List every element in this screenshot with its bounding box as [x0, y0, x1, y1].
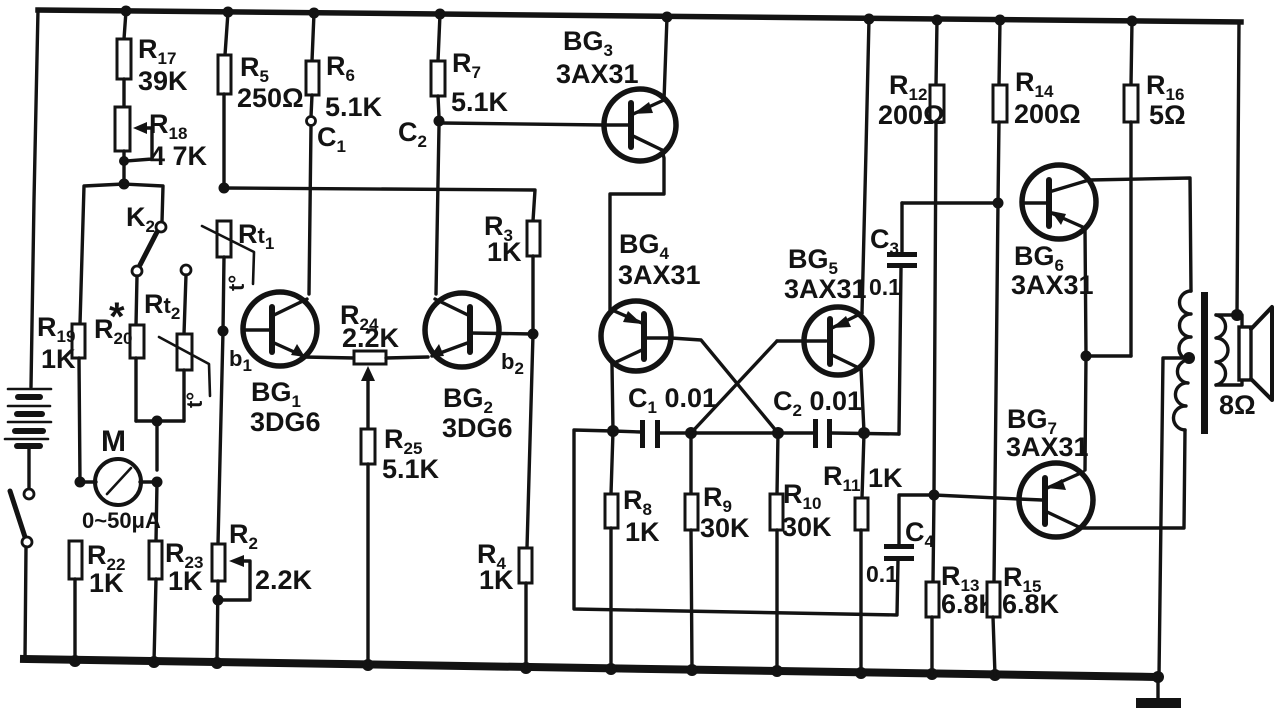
transistor BG3 3AX31: [556, 26, 676, 161]
wire BG3 emitter to top rail: [664, 17, 667, 100]
wire bias row to R3: [224, 188, 535, 221]
wire secondary bottom to speaker: [1216, 380, 1242, 385]
speaker 8 ohm: [1219, 307, 1272, 420]
wire branch to R19: [80, 184, 124, 324]
resistor R5: [218, 12, 304, 188]
svg-text:BG2: BG2: [443, 383, 493, 417]
potentiometer R24: [340, 300, 428, 364]
transistor BG7 3AX31: [1006, 404, 1093, 537]
wire R14 node down to R15: [994, 203, 998, 582]
wire R16 bottom to emitter node: [1086, 354, 1131, 357]
svg-text:R10: R10: [783, 479, 821, 513]
svg-text:200Ω: 200Ω: [1014, 99, 1081, 129]
svg-text:K2: K2: [126, 202, 155, 236]
thermistor Rt2: [144, 265, 210, 421]
resistor R8: [605, 431, 660, 669]
wire BG4 collector down: [612, 364, 613, 431]
node C1 / R9 / diagonal: [685, 427, 697, 439]
resistor R11: [823, 433, 903, 672]
wire BG3 collector to BG4 emitter: [610, 150, 664, 310]
svg-text:R25: R25: [384, 424, 422, 458]
meter M 0~50uA: [75, 425, 163, 533]
node common emitters / R16: [1081, 351, 1092, 362]
resistor R6: [306, 13, 383, 122]
potentiometer R18: [115, 107, 208, 184]
svg-text:30K: 30K: [700, 513, 750, 543]
svg-text:3AX31: 3AX31: [618, 260, 701, 290]
wire secondary top to speaker: [1216, 315, 1242, 329]
svg-text:t°: t°: [224, 275, 249, 291]
wire BG1 base column down to R2: [218, 331, 223, 544]
svg-text:R9: R9: [703, 482, 732, 516]
svg-text:R5: R5: [240, 52, 269, 86]
wire branch to K2: [124, 184, 163, 222]
transistor BG6 3AX31: [1011, 165, 1096, 300]
svg-text:1K: 1K: [41, 344, 76, 374]
svg-text:R12: R12: [889, 70, 927, 104]
rheostat R2: [212, 519, 313, 662]
resistor R4: [477, 334, 533, 668]
wire C2 node to BG3 base: [442, 123, 604, 125]
resistor R3: [484, 211, 540, 334]
wire BG4 base cross-coupling diagonal to C2 node: [671, 338, 778, 433]
svg-text:R17: R17: [138, 34, 176, 68]
svg-text:2.2K: 2.2K: [255, 565, 313, 595]
node C2: [398, 116, 445, 152]
wire BG2 collector column: [436, 126, 439, 294]
svg-text:250Ω: 250Ω: [237, 83, 304, 113]
thermistor Rt1: [202, 219, 274, 331]
node BG2 base / R3: [528, 329, 539, 340]
svg-text:0.1: 0.1: [866, 561, 898, 587]
svg-text:1K: 1K: [479, 565, 514, 595]
wire BG5 emitter to top rail: [862, 19, 869, 313]
svg-text:5.1K: 5.1K: [382, 454, 440, 484]
node R14 / C3 / BG6 base: [993, 198, 1004, 209]
node transformer center tap: [1183, 352, 1195, 364]
wire BG6 collector to transformer top: [1089, 178, 1191, 291]
svg-text:1K: 1K: [625, 517, 660, 547]
node BG1 base: [218, 326, 229, 337]
resistor R23: [149, 482, 203, 662]
wire BG1 emitter to R24: [304, 357, 354, 358]
svg-text:R6: R6: [326, 51, 355, 85]
bottom rail: [24, 655, 1164, 683]
power switch: [10, 489, 34, 659]
svg-text:BG1: BG1: [251, 377, 301, 411]
resistor R12: [878, 20, 945, 495]
resistor R14: [993, 20, 1081, 203]
node joining R20 and Rt2 to meter: [136, 416, 184, 471]
wire C3 bottom return: [899, 268, 901, 434]
node C2 / R10 / diagonal: [772, 427, 784, 439]
resistor R17: [117, 11, 188, 107]
svg-text:R18: R18: [149, 109, 187, 143]
wire left edge from top rail to battery: [31, 10, 38, 387]
svg-text:R11: R11: [823, 461, 860, 495]
wire center tap to bottom rail: [1159, 358, 1189, 676]
battery B: [5, 389, 51, 489]
svg-text:BG5: BG5: [788, 244, 838, 278]
svg-text:1K: 1K: [168, 566, 203, 596]
capacitor C4 0.1: [866, 495, 935, 587]
svg-text:3DG6: 3DG6: [442, 413, 513, 443]
top rail: [38, 6, 1241, 27]
svg-text:1K: 1K: [89, 568, 124, 598]
svg-text:5.1K: 5.1K: [451, 87, 509, 117]
resistor R9: [685, 433, 750, 670]
wire BG7 collector to transformer bottom: [1081, 430, 1185, 528]
resistor R7: [431, 14, 509, 117]
wire BG5 base cross-coupling diagonal to C1 node: [691, 341, 777, 433]
transistor BG2 3DG6: [425, 293, 533, 443]
wire top rail right drop to speaker node: [1237, 22, 1239, 315]
svg-text:0~50μA: 0~50μA: [82, 508, 161, 533]
svg-text:1K: 1K: [868, 463, 903, 493]
wire BG1 collector column: [309, 126, 311, 294]
capacitor C3 0.1: [869, 203, 917, 300]
node R12 / C4 / BG7 base: [929, 490, 940, 501]
switch K2: [126, 202, 166, 276]
ground: [1136, 677, 1181, 708]
svg-text:3DG6: 3DG6: [250, 407, 321, 437]
svg-text:C4: C4: [905, 517, 935, 551]
svg-text:R2: R2: [229, 519, 258, 553]
svg-text:3AX31: 3AX31: [1011, 270, 1094, 300]
svg-text:R8: R8: [623, 485, 652, 519]
svg-text:5Ω: 5Ω: [1149, 100, 1186, 130]
svg-text:C2 0.01: C2 0.01: [773, 386, 862, 420]
svg-text:30K: 30K: [782, 512, 832, 542]
transformer primary winding: [1173, 291, 1191, 430]
svg-text:BG4: BG4: [619, 229, 670, 263]
svg-text:39K: 39K: [138, 66, 188, 96]
svg-text:3AX31: 3AX31: [1006, 432, 1089, 462]
node BG4 collector / R8 / C1: [607, 425, 619, 437]
svg-text:t°: t°: [182, 392, 207, 408]
wire feedback box C4 bottom to BG4 collector node: [574, 430, 898, 615]
svg-text:C1 0.01: C1 0.01: [628, 383, 717, 417]
svg-text:6.8K: 6.8K: [1002, 589, 1060, 619]
svg-text:3AX31: 3AX31: [556, 59, 639, 89]
svg-text:R14: R14: [1015, 67, 1054, 101]
resistor R22: [69, 540, 125, 661]
resistor R19: [37, 312, 85, 482]
svg-text:*: *: [109, 295, 125, 339]
svg-text:b2: b2: [501, 349, 524, 378]
svg-text:C1: C1: [317, 122, 346, 156]
svg-text:C2: C2: [398, 117, 427, 151]
resistor R25 on R24 wiper: [361, 366, 440, 665]
svg-text:BG3: BG3: [563, 26, 613, 60]
svg-text:2.2K: 2.2K: [342, 323, 400, 353]
svg-text:0.1: 0.1: [869, 274, 901, 300]
capacitor C2 0.01: [691, 386, 899, 448]
resistor R20 (calibration): [94, 276, 144, 421]
resistor R15: [987, 562, 1060, 675]
svg-text:M: M: [101, 425, 126, 458]
svg-text:200Ω: 200Ω: [878, 100, 945, 130]
resistor R10: [770, 433, 832, 671]
transistor BG1 3DG6: [229, 292, 321, 437]
node R5 / Rt1 / bias wire: [219, 183, 230, 194]
wire C3 top to BG6 base node: [902, 201, 998, 204]
wire BG7 base: [934, 495, 1019, 499]
terminal C1: [307, 117, 346, 157]
wire BG6 emitter down to common node and BG7 emitter: [1085, 228, 1086, 470]
transistor BG4 3AX31: [601, 229, 701, 371]
resistor R16: [1124, 21, 1186, 356]
resistor R13: [926, 495, 999, 674]
svg-text:8Ω: 8Ω: [1219, 390, 1256, 420]
node speaker / top rail feed: [1231, 309, 1243, 321]
svg-text:Rt2: Rt2: [144, 289, 180, 323]
svg-text:4 7K: 4 7K: [150, 141, 208, 171]
svg-text:3AX31: 3AX31: [784, 274, 867, 304]
svg-text:5.1K: 5.1K: [325, 92, 383, 122]
node branch below R18: [119, 179, 130, 190]
svg-text:1K: 1K: [487, 237, 522, 267]
capacitor C1 0.01: [613, 383, 717, 448]
transformer core: [1201, 292, 1208, 434]
transistor BG5 3AX31: [777, 244, 872, 375]
svg-text:R19: R19: [37, 312, 75, 346]
wire BG5 collector down: [861, 369, 864, 432]
svg-text:R7: R7: [452, 48, 481, 82]
node BG5 collector / R11 / C3 return: [858, 427, 870, 439]
svg-text:C3: C3: [870, 224, 899, 258]
transformer secondary winding: [1216, 315, 1228, 385]
svg-text:R16: R16: [1146, 70, 1184, 104]
svg-text:Rt1: Rt1: [238, 219, 274, 253]
